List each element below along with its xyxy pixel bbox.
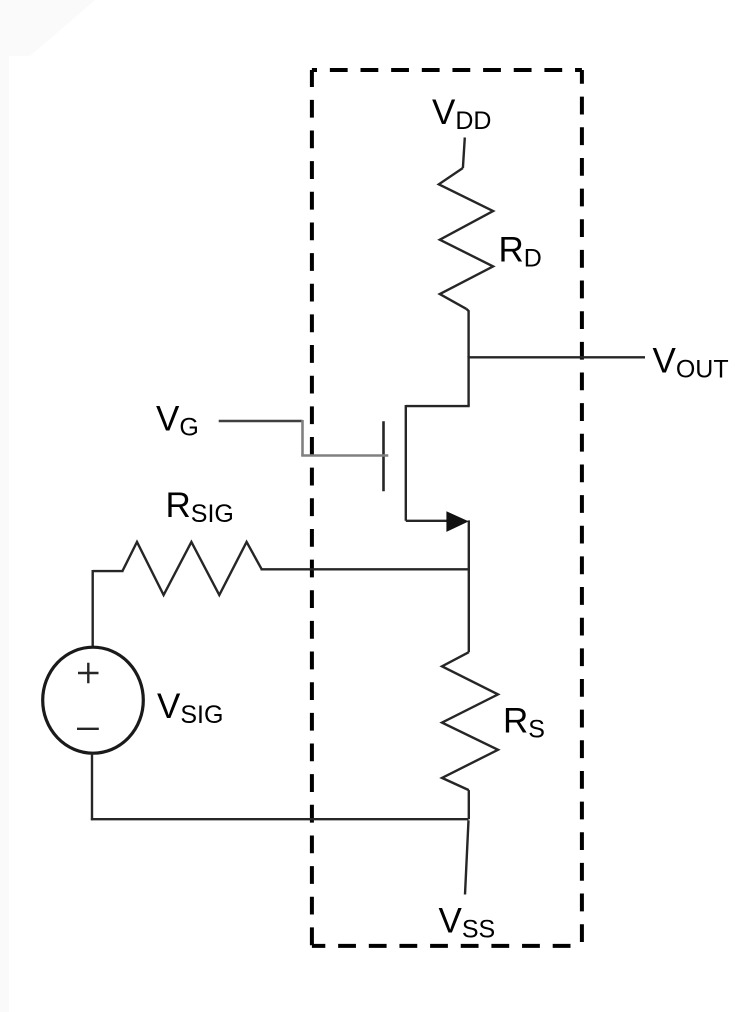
resistor RSIG: [122, 542, 261, 595]
transistor Q1 drain lead: [406, 405, 470, 407]
transistor Q1 gate bar: [382, 421, 385, 491]
voltage source VSIG circle: [43, 647, 144, 753]
svg-text:VOUT: VOUT: [653, 342, 729, 384]
svg-text:VDD: VDD: [432, 93, 491, 135]
wire VDD lead: [463, 138, 465, 169]
wire VOUT from drain node: [469, 356, 645, 358]
resistor RS: [442, 652, 498, 790]
dashed amplifier boundary box: [312, 70, 582, 946]
svg-text:RD: RD: [499, 231, 542, 273]
wire RD to drain node: [466, 309, 468, 357]
wire VSIG top lead: [91, 570, 93, 648]
wire RSIG lead left: [93, 570, 124, 572]
wire bottom rail: [91, 818, 469, 820]
VSIG plus sign: [78, 663, 99, 683]
transistor Q1 channel bar: [405, 405, 407, 521]
wire VG horizontal dark segment: [219, 420, 303, 422]
wire RS bottom lead: [468, 790, 470, 819]
resistor RD: [439, 168, 493, 309]
svg-text:RS: RS: [503, 702, 545, 744]
VSIG minus sign: [77, 728, 99, 730]
transistor Q1 source lead: [406, 520, 450, 522]
wire source vertical to RS: [468, 520, 470, 652]
svg-text:VSS: VSS: [439, 902, 496, 944]
wire RSIG to source node: [261, 568, 470, 570]
svg-text:VSIG: VSIG: [157, 687, 223, 729]
wire VSIG bottom lead: [91, 753, 93, 820]
wire VG to gate gray: [301, 454, 388, 457]
svg-text:RSIG: RSIG: [166, 486, 234, 528]
wire VG jog vertical gray: [301, 420, 304, 456]
wire drain vertical: [467, 356, 469, 406]
transistor Q1 source arrow: [446, 511, 468, 532]
svg-text:VG: VG: [156, 399, 199, 441]
wire VSS lead: [465, 820, 469, 894]
